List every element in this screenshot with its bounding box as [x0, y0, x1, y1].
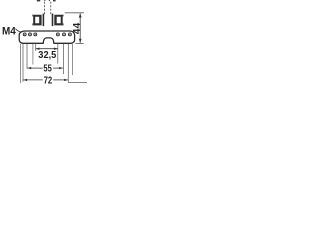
- left clip profile: [33, 15, 41, 26]
- extension line R4: [71, 44, 73, 75]
- dim 44 top extension line: [65, 12, 84, 14]
- hole 1: [23, 33, 26, 36]
- hole 5: [63, 33, 66, 36]
- dim 72 left arrow: [23, 79, 27, 81]
- extension line L4: [32, 44, 34, 65]
- extension line R3 (72 right): [67, 44, 69, 83]
- dim 55 line right segment: [53, 67, 63, 69]
- svg-text:72: 72: [44, 75, 53, 86]
- extension line R1 (32,5 right): [57, 44, 59, 64]
- extension line L5 (32,5 left): [35, 44, 37, 51]
- dim 32,5 left arrow: [36, 48, 40, 50]
- dim 44 line: [79, 13, 81, 43]
- dim 32,5 line: [36, 48, 58, 50]
- svg-text:M4: M4: [2, 26, 17, 38]
- centerline of right clip (dashed): [50, 2, 52, 15]
- extension line L2 (72 left): [22, 44, 24, 82]
- cropped bottom-right dimension line: [68, 82, 87, 84]
- dim 32,5 right arrow: [54, 48, 58, 50]
- dim 72 right arrow: [64, 79, 68, 81]
- svg-text:55: 55: [43, 64, 52, 75]
- hole 2: [29, 33, 32, 36]
- hole 3: [34, 33, 37, 36]
- leader line M4: [16, 29, 21, 32]
- extension line L1: [20, 44, 22, 83]
- cropped top dimension mark right: [53, 0, 56, 1]
- dim 72 line left segment: [23, 79, 43, 81]
- svg-text:32,5: 32,5: [38, 50, 56, 61]
- centerline of left clip (dashed): [44, 2, 46, 15]
- right clip profile: [54, 15, 62, 26]
- hole 6: [68, 33, 71, 36]
- hole 4: [56, 33, 59, 36]
- dim 72 line right segment: [53, 79, 68, 81]
- dim 55 line left segment: [27, 67, 42, 69]
- dim 44 bottom extension line: [75, 43, 83, 45]
- body outline: [19, 31, 74, 43]
- dim 55 right arrow: [59, 67, 63, 69]
- extension line R2 (55 right): [62, 44, 64, 74]
- extension line L3 (55 left): [26, 44, 28, 69]
- dim 44 up arrow: [79, 13, 82, 17]
- svg-text:44: 44: [72, 22, 83, 34]
- dim 44 down arrow: [79, 39, 82, 43]
- cropped top dimension mark left: [37, 0, 40, 1]
- dim 55 left arrow: [27, 67, 31, 69]
- cropped top text dot B: [49, 0, 50, 1]
- cropped top text dot A: [44, 0, 45, 1]
